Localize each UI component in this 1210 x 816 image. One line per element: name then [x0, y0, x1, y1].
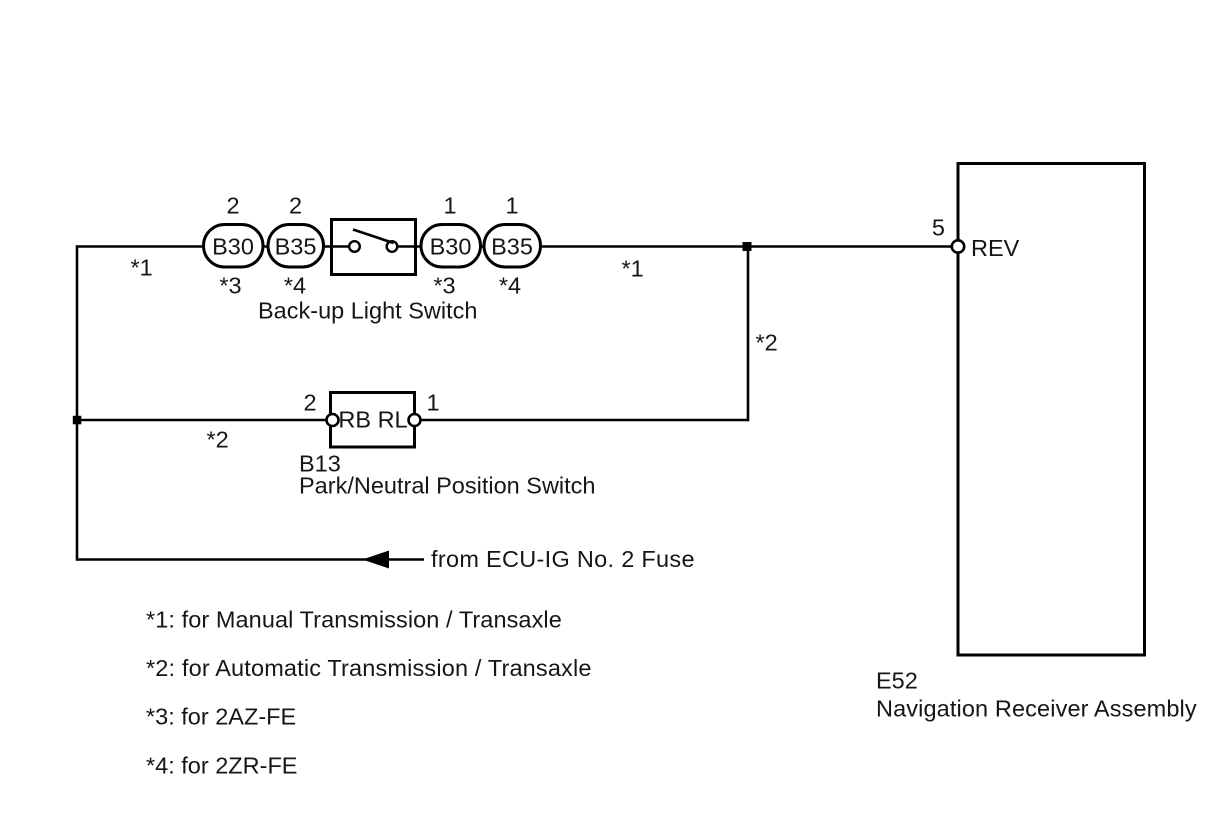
svg-text:Navigation Receiver Assembly: Navigation Receiver Assembly [876, 696, 1197, 722]
junction at left riser and A/T branch [73, 416, 82, 425]
park/neutral position switch box B13 [331, 393, 415, 448]
svg-text:*2: *2 [207, 427, 229, 453]
svg-text:Park/Neutral Position Switch: Park/Neutral Position Switch [299, 473, 595, 499]
svg-text:*3: for 2AZ-FE: *3: for 2AZ-FE [146, 704, 296, 730]
navigation receiver assembly box E52 [958, 164, 1145, 656]
svg-text:*2: for Automatic Transmission: *2: for Automatic Transmission / Transax… [146, 655, 592, 681]
svg-text:Back-up Light Switch: Back-up Light Switch [258, 298, 477, 324]
svg-text:E52: E52 [876, 668, 918, 694]
svg-text:RB RL: RB RL [338, 407, 407, 433]
switch contact left [349, 241, 360, 252]
svg-text:*2: *2 [756, 330, 778, 356]
switch contact right [387, 241, 398, 252]
svg-text:B35: B35 [275, 234, 317, 260]
svg-text:1: 1 [505, 193, 518, 219]
switch blade (open) [353, 230, 394, 244]
junction at top wire and branch [743, 242, 752, 251]
connector B30 pin 1 (oval) [421, 225, 481, 268]
wire: left vertical riser [76, 245, 79, 561]
wire: top horizontal run from left riser to REV terminal [77, 245, 952, 248]
svg-text:2: 2 [289, 193, 302, 219]
svg-text:*4: *4 [499, 273, 521, 299]
arrowhead from ECU-IG fuse [363, 551, 390, 569]
wire inside switch box, left segment [331, 245, 349, 248]
svg-text:from ECU-IG No. 2 Fuse: from ECU-IG No. 2 Fuse [431, 546, 695, 572]
svg-text:*4: for 2ZR-FE: *4: for 2ZR-FE [146, 753, 297, 779]
svg-text:1: 1 [426, 390, 439, 416]
connector B35 pin 2 (oval) [268, 225, 324, 268]
terminal 5 REV (open circle) [952, 240, 964, 252]
svg-text:B30: B30 [430, 234, 472, 260]
wire: middle horizontal A/T branch through B13 [77, 419, 748, 422]
svg-text:*3: *3 [433, 273, 455, 299]
svg-text:2: 2 [303, 390, 316, 416]
connector B30 pin 2 (oval) [204, 225, 264, 268]
svg-text:*1: *1 [622, 256, 644, 282]
svg-text:1: 1 [443, 193, 456, 219]
svg-text:*1: *1 [131, 255, 153, 281]
svg-text:*1: for Manual Transmission /: *1: for Manual Transmission / Transaxle [146, 607, 562, 633]
svg-text:B30: B30 [212, 234, 254, 260]
terminal 1 of B13 (open circle) [409, 414, 421, 426]
wire inside switch box, right segment [397, 245, 416, 248]
svg-text:*3: *3 [219, 273, 241, 299]
connector B35 pin 1 (oval) [484, 225, 541, 268]
back-up light switch box [332, 220, 416, 275]
svg-text:2: 2 [226, 193, 239, 219]
wire: right vertical branch [747, 247, 750, 422]
svg-text:B35: B35 [491, 234, 533, 260]
wire: bottom horizontal to fuse arrow [77, 558, 424, 561]
svg-text:REV: REV [971, 235, 1020, 261]
svg-text:*4: *4 [284, 273, 306, 299]
terminal 2 of B13 (open circle) [327, 414, 339, 426]
svg-text:5: 5 [932, 215, 945, 241]
